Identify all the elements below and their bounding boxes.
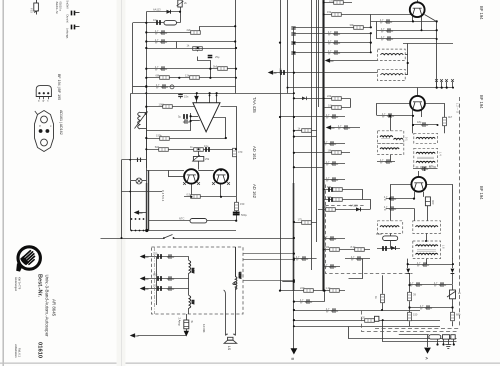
IF transformer TF4: [414, 148, 443, 167]
capacitor C18: [167, 286, 174, 290]
row y208.2: [386, 208, 414, 210]
speaker lead left: [225, 295, 227, 336]
capacitor C45: [380, 159, 392, 165]
top resistor R1: [177, 0, 188, 7]
svg-text:18p: 18p: [417, 120, 422, 124]
row y52.4: [294, 52, 371, 54]
resistor R21: [327, 10, 341, 16]
svg-text:47p: 47p: [429, 164, 434, 168]
row y32.4: [146, 32, 199, 34]
resistor R30: [298, 218, 312, 225]
wire x414 into TF6: [414, 208, 416, 221]
row y21.4: [371, 21, 437, 23]
lamp LP1: [129, 158, 142, 193]
capacitor C28: [326, 114, 338, 120]
connector dot rows: [121, 169, 238, 239]
opamp top leads: [196, 93, 198, 103]
bus x319: [318, 0, 320, 107]
main supply bus thick: [322, 0, 324, 291]
row y48 riser x197.7: [197, 48, 199, 51]
bus cap C22: [291, 42, 295, 44]
capacitor legend C102: [66, 15, 80, 40]
electrolytic C2: [153, 18, 160, 25]
arrow in3: [326, 125, 335, 130]
capacitor C49: [417, 262, 429, 268]
row y168.8: [413, 168, 438, 170]
row y199.3: [324, 200, 371, 210]
resistor R20: [329, 0, 343, 4]
row y249.6: [324, 249, 370, 251]
bus cap C21: [291, 33, 295, 35]
svg-text:BF 194: BF 194: [479, 95, 484, 109]
wire row 258 right: [345, 258, 370, 260]
input arrow AM3: [140, 286, 149, 291]
row y198.6: [386, 198, 414, 200]
caps to opamp leads: [190, 113, 192, 131]
bus x316: [316, 0, 318, 242]
transistor Q5 AD162: [214, 169, 228, 183]
svg-text:15k: 15k: [327, 10, 332, 14]
left arrow stub: [139, 212, 146, 214]
capacitor C15: [153, 273, 161, 281]
wire y86: [133, 86, 147, 88]
capacitor C13: [153, 252, 161, 259]
svg-text:BF 194: BF 194: [479, 186, 484, 200]
vertical x180 top resistor lead: [180, 7, 182, 23]
diode D1: [153, 8, 171, 14]
resistor R34: [326, 286, 340, 292]
row y86.9: [146, 86, 236, 88]
resistor R12 vertical: [233, 148, 243, 156]
svg-text:L 6: L 6: [442, 245, 446, 249]
resistor R52 vertical: [408, 312, 418, 320]
small box R54: [375, 316, 379, 321]
row y130.8 left: [294, 130, 317, 132]
package outline AD161/AD162: [35, 110, 64, 152]
svg-text:Best.-Nr.: Best.-Nr.: [37, 274, 43, 297]
capacitor C29: [338, 125, 350, 131]
capacitor C52: [420, 305, 432, 311]
capacitor C19 below supply row: [178, 93, 189, 98]
row y115.8: [377, 115, 413, 117]
capacitor C31: [326, 161, 338, 167]
transistor Q4 AD161: [184, 169, 198, 183]
svg-text:01610: 01610: [37, 342, 43, 358]
svg-text:175: 175: [298, 218, 303, 222]
junction dots left block: [145, 11, 237, 95]
capacitor C46: [421, 164, 434, 171]
capacitor C36: [300, 299, 312, 305]
svg-text:33k: 33k: [327, 195, 332, 199]
col x452.5: [452, 285, 454, 290]
row y127.8: [330, 127, 361, 129]
resistor R27: [327, 185, 342, 192]
row y14.4: [324, 14, 411, 16]
vertical x131 upper: [130, 93, 132, 230]
arrow A lead: [427, 335, 429, 348]
resistor R4: [187, 44, 203, 51]
capacitor legend C101: [66, 1, 80, 16]
svg-text:0,5: 0,5: [187, 192, 191, 196]
top row between transistors: [146, 170, 184, 172]
svg-text:L 2 — S: L 2 — S: [456, 103, 460, 113]
svg-text:X 4 5 6 4: X 4 5 6 4: [161, 190, 165, 202]
svg-text:Ratio: Ratio: [376, 232, 383, 236]
bottom arrow line: [138, 335, 187, 337]
inductor L1 tunable: [135, 111, 148, 129]
capacitor C30: [324, 141, 336, 147]
row y11.7: [146, 11, 180, 13]
svg-text:Änderungen: Änderungen: [14, 277, 18, 292]
fuse feed: [186, 314, 188, 320]
svg-text:LS: LS: [227, 346, 231, 351]
svg-text:vorbehalten: vorbehalten: [14, 344, 18, 358]
diode D6: [302, 97, 307, 101]
svg-text:5n/2kV: 5n/2kV: [66, 1, 70, 10]
resistor R41 rounded: [376, 232, 398, 241]
FM coil box L6: [378, 69, 406, 80]
row y72.7: [274, 72, 378, 74]
resistor R9 feedback: [156, 134, 169, 141]
resistor R8: [159, 102, 173, 108]
svg-text:L 4: L 4: [439, 152, 443, 156]
down to T3: [418, 171, 420, 178]
capacitor C4: [155, 39, 167, 45]
package outline BF194/BF195: [36, 74, 61, 102]
vert x445: [444, 126, 446, 134]
row y220.7: [149, 220, 237, 222]
svg-text:150: 150: [240, 202, 245, 206]
wire D4 to row285: [409, 274, 411, 285]
svg-text:10n: 10n: [153, 284, 158, 288]
speaker line1: [349, 327, 457, 339]
wire riser x370: [370, 14, 372, 27]
capacitor C35: [324, 264, 336, 270]
row y307.5: [410, 307, 453, 309]
row y230.5: [131, 230, 236, 232]
T1 emitter down: [412, 16, 414, 21]
wire row y191.5: [122, 191, 163, 193]
row y238.3: [324, 238, 345, 240]
bus x280: [280, 0, 282, 291]
inductor L3 vertical: [189, 296, 195, 309]
row y60.6 arrow line: [330, 60, 378, 62]
wire y93 long: [131, 93, 294, 95]
fold line: [120, 0, 123, 366]
opamp top pin marks: [194, 95, 217, 102]
dashed border bottom: [375, 328, 460, 330]
transistor Q3 BF194: [411, 177, 426, 192]
row y2.5: [324, 2, 352, 4]
transistor Q2 BF194: [410, 96, 425, 111]
resistor R14 rounded: [179, 217, 207, 223]
inductor L4 vertical tall: [233, 247, 242, 290]
svg-text:5k6: 5k6: [155, 145, 160, 149]
vertical ecap lead down to 68.7: [198, 57, 211, 78]
resistor R23: [327, 94, 341, 100]
FM coil box L5: [378, 49, 406, 60]
resistor R33: [300, 286, 313, 292]
svg-text:AA113: AA113: [153, 8, 161, 12]
input arrow AM2: [140, 276, 149, 281]
resistor R50 vertical: [374, 294, 384, 302]
dashed sub border: [362, 311, 457, 332]
row y248 diode row: [377, 248, 400, 250]
svg-text:150k: 150k: [156, 134, 162, 138]
x-marks on transistor leads: [183, 182, 238, 209]
row y107.8: [324, 107, 350, 109]
row y43.4: [403, 43, 453, 45]
row y117: [280, 116, 345, 118]
row y278: [142, 278, 189, 280]
electrolytic C5 vertical: [208, 55, 220, 59]
svg-text:2,2µ: 2,2µ: [279, 69, 283, 75]
IF transformer TF3: [414, 133, 438, 143]
svg-text:TAA 435: TAA 435: [252, 97, 257, 113]
wire T2 top lead: [417, 88, 419, 96]
fuse bottom arrow: [184, 331, 189, 337]
row y33.2: [294, 33, 371, 35]
scan border bottom: [0, 363, 500, 364]
capacitor C7: [156, 84, 174, 90]
svg-text:15n: 15n: [184, 95, 189, 99]
opamp out right: [221, 107, 237, 150]
svg-text:5k6: 5k6: [213, 64, 218, 68]
row y152.8: [294, 152, 350, 154]
svg-text:BF 194: BF 194: [479, 6, 484, 20]
resistor R31: [325, 245, 339, 251]
svg-text:100k: 100k: [159, 102, 165, 106]
row y179.5: [324, 179, 345, 181]
row y281.9 stub: [282, 281, 294, 283]
arrow AM in: [268, 70, 277, 75]
svg-text:82p: 82p: [153, 273, 158, 277]
dashed enclosure: [152, 247, 244, 314]
fold shading: [117, 0, 126, 366]
row y106.7 input: [146, 106, 194, 108]
svg-text:12k: 12k: [185, 73, 190, 77]
resistor R3: [187, 28, 201, 34]
connector row lines: [399, 334, 429, 336]
resistor R51 vertical: [408, 292, 417, 300]
speaker line2: [383, 321, 457, 342]
T2 leads: [412, 110, 414, 116]
svg-text:5µ: 5µ: [178, 115, 181, 119]
top right dots: [407, 20, 454, 88]
capacitor C50: [410, 282, 422, 288]
capacitor C40: [380, 19, 392, 25]
svg-text:39k: 39k: [350, 23, 355, 27]
bus cap C23: [291, 52, 295, 54]
row y301.6: [294, 301, 325, 303]
svg-text:B: B: [291, 358, 296, 361]
arrow input left: [134, 210, 143, 215]
capacitor C38: [351, 256, 363, 262]
svg-text:220: 220: [329, 0, 334, 2]
capacitor C26: [328, 50, 340, 56]
bus V2 top: [235, 0, 237, 93]
svg-text:460: 460: [431, 200, 435, 205]
logo: [16, 247, 40, 272]
svg-text:4k7: 4k7: [448, 115, 453, 119]
row y163.3: [324, 163, 345, 165]
capacitor C47: [384, 196, 396, 202]
row y149.2: [146, 149, 236, 151]
right column: [236, 197, 238, 221]
capacitor C24: [328, 31, 340, 37]
capacitor C42: [381, 36, 393, 42]
resistor R13: [187, 192, 201, 198]
speaker lead left hook: [224, 290, 226, 295]
capacitor C41: [381, 28, 393, 34]
bus cap C20: [291, 27, 295, 29]
svg-text:AD 161: AD 161: [252, 146, 257, 161]
svg-text:Leitungs.: Leitungs.: [66, 28, 70, 39]
resistor R29: [322, 205, 335, 211]
row y157.7: [122, 159, 147, 161]
row y138 feedback: [146, 138, 226, 140]
row y42.6: [294, 42, 371, 44]
capacitor C34: [296, 256, 308, 262]
pot P2 vertical: [447, 290, 461, 299]
capacitor C51: [434, 282, 446, 288]
resistor R7: [185, 73, 199, 79]
row y222 left: [294, 222, 317, 224]
svg-text:10µ: 10µ: [153, 18, 158, 22]
row y87.6 long: [288, 87, 454, 89]
svg-text:01610 a: 01610 a: [59, 2, 63, 12]
svg-text:AR 8645: AR 8645: [52, 299, 57, 317]
svg-text:Univ.-3-Band-Autom.-Autosuper: Univ.-3-Band-Autom.-Autosuper: [45, 275, 50, 338]
row y167.2: [294, 167, 324, 169]
row y209.4: [318, 209, 370, 211]
arrow A ground: [424, 348, 431, 360]
svg-text:AD161 | AD162: AD161 | AD162: [59, 110, 63, 135]
wire bus B thick segment: [293, 183, 295, 291]
IF transformer TF6: [413, 221, 441, 234]
svg-text:12≈NK: 12≈NK: [202, 324, 206, 333]
row y258.4 left: [294, 258, 317, 260]
capacitor C8: [178, 114, 187, 119]
dashed border right: [459, 97, 461, 328]
svg-text:Si: Si: [190, 321, 194, 324]
electrolytic C12 vertical: [233, 213, 248, 218]
resistor R2 rounded: [164, 21, 177, 25]
left ends verticals: [376, 21, 378, 39]
band switch x marks: [435, 79, 454, 82]
row y289: [142, 288, 189, 290]
bus V1: [146, 12, 148, 168]
svg-text:220: 220: [153, 252, 158, 256]
dashed FM block border: [326, 185, 413, 274]
diode D3: [383, 246, 396, 251]
resistor R24: [328, 103, 341, 109]
capacitor C48: [384, 206, 396, 212]
input arrow AM1: [140, 254, 149, 259]
inductor L2 vertical: [189, 261, 195, 274]
verticals below tf: [426, 259, 428, 265]
row y257: [142, 256, 189, 258]
row y41.5: [146, 41, 235, 43]
AM link rows: [243, 253, 294, 255]
T3 leads: [414, 192, 416, 199]
wire D5 to row285: [452, 274, 454, 285]
row y326.3: [294, 326, 440, 328]
capacitor C43: [382, 113, 394, 119]
svg-text:RdL 6.1: RdL 6.1: [17, 348, 21, 358]
resistor R5: [213, 64, 227, 70]
bus x311: [311, 0, 313, 270]
vertical x176: [176, 42, 178, 49]
tf interconnects: [390, 155, 392, 162]
wire x390 into TF5: [390, 199, 392, 221]
resistor R40 vertical: [443, 115, 453, 126]
diode D2: [350, 204, 361, 212]
electrolytic C27: [279, 69, 285, 75]
wire T1 top lead: [417, 0, 419, 2]
step to y26: [200, 27, 236, 33]
row y77.8: [146, 77, 236, 79]
dashed FM block top edge: [325, 205, 365, 207]
svg-text:BF 194 | BF 195: BF 194 | BF 195: [57, 74, 61, 100]
capacitor C32: [326, 177, 338, 183]
bus x287: [287, 0, 289, 93]
bus V0: [132, 23, 134, 93]
capacitor C25: [328, 40, 340, 46]
svg-text:25µ: 25µ: [215, 55, 220, 59]
riser x324.5: [324, 291, 326, 302]
coil box link: [405, 54, 408, 56]
svg-text:Durchf.: Durchf.: [66, 15, 70, 24]
emitter drops: [191, 184, 193, 197]
bus B x294: [293, 27, 295, 349]
lamp row: [131, 180, 146, 182]
svg-text:22k: 22k: [327, 94, 332, 98]
IF transformer TF7 ratio detector: [413, 241, 446, 259]
svg-text:A: A: [425, 357, 430, 360]
resistor R22: [350, 23, 364, 29]
svg-text:AD 162: AD 162: [252, 184, 257, 199]
capacitor C33: [324, 236, 336, 242]
row y285: [410, 284, 453, 286]
row y127.1: [146, 130, 190, 132]
wire FM det corner: [349, 259, 363, 279]
resistor R26: [328, 148, 342, 154]
capacitor C16: [167, 276, 174, 280]
bottom input arrow: [130, 333, 139, 338]
row y22.8: [133, 22, 180, 24]
wire x236 mid segment: [236, 156, 238, 197]
T1 collector to right: [425, 15, 437, 88]
op-amp U1 TAA435: [193, 103, 220, 132]
svg-text:10k: 10k: [328, 103, 333, 107]
band switch stubs: [436, 82, 438, 88]
capacitor C17: [153, 284, 161, 291]
speaker lead right: [235, 288, 237, 336]
row y30.2: [377, 30, 437, 32]
svg-text:LW: LW: [191, 300, 195, 304]
bottom right dots: [381, 284, 455, 346]
svg-text:FS3: FS3: [30, 8, 34, 13]
pot lead: [198, 149, 200, 156]
left col x382: [382, 275, 384, 294]
svg-text:UKW: UKW: [238, 272, 242, 279]
row y143.3: [324, 143, 345, 145]
resistor R35: [361, 316, 375, 323]
svg-text:18k: 18k: [328, 148, 333, 152]
row y238 switch line left: [101, 238, 165, 240]
wire row y48: [146, 48, 235, 50]
